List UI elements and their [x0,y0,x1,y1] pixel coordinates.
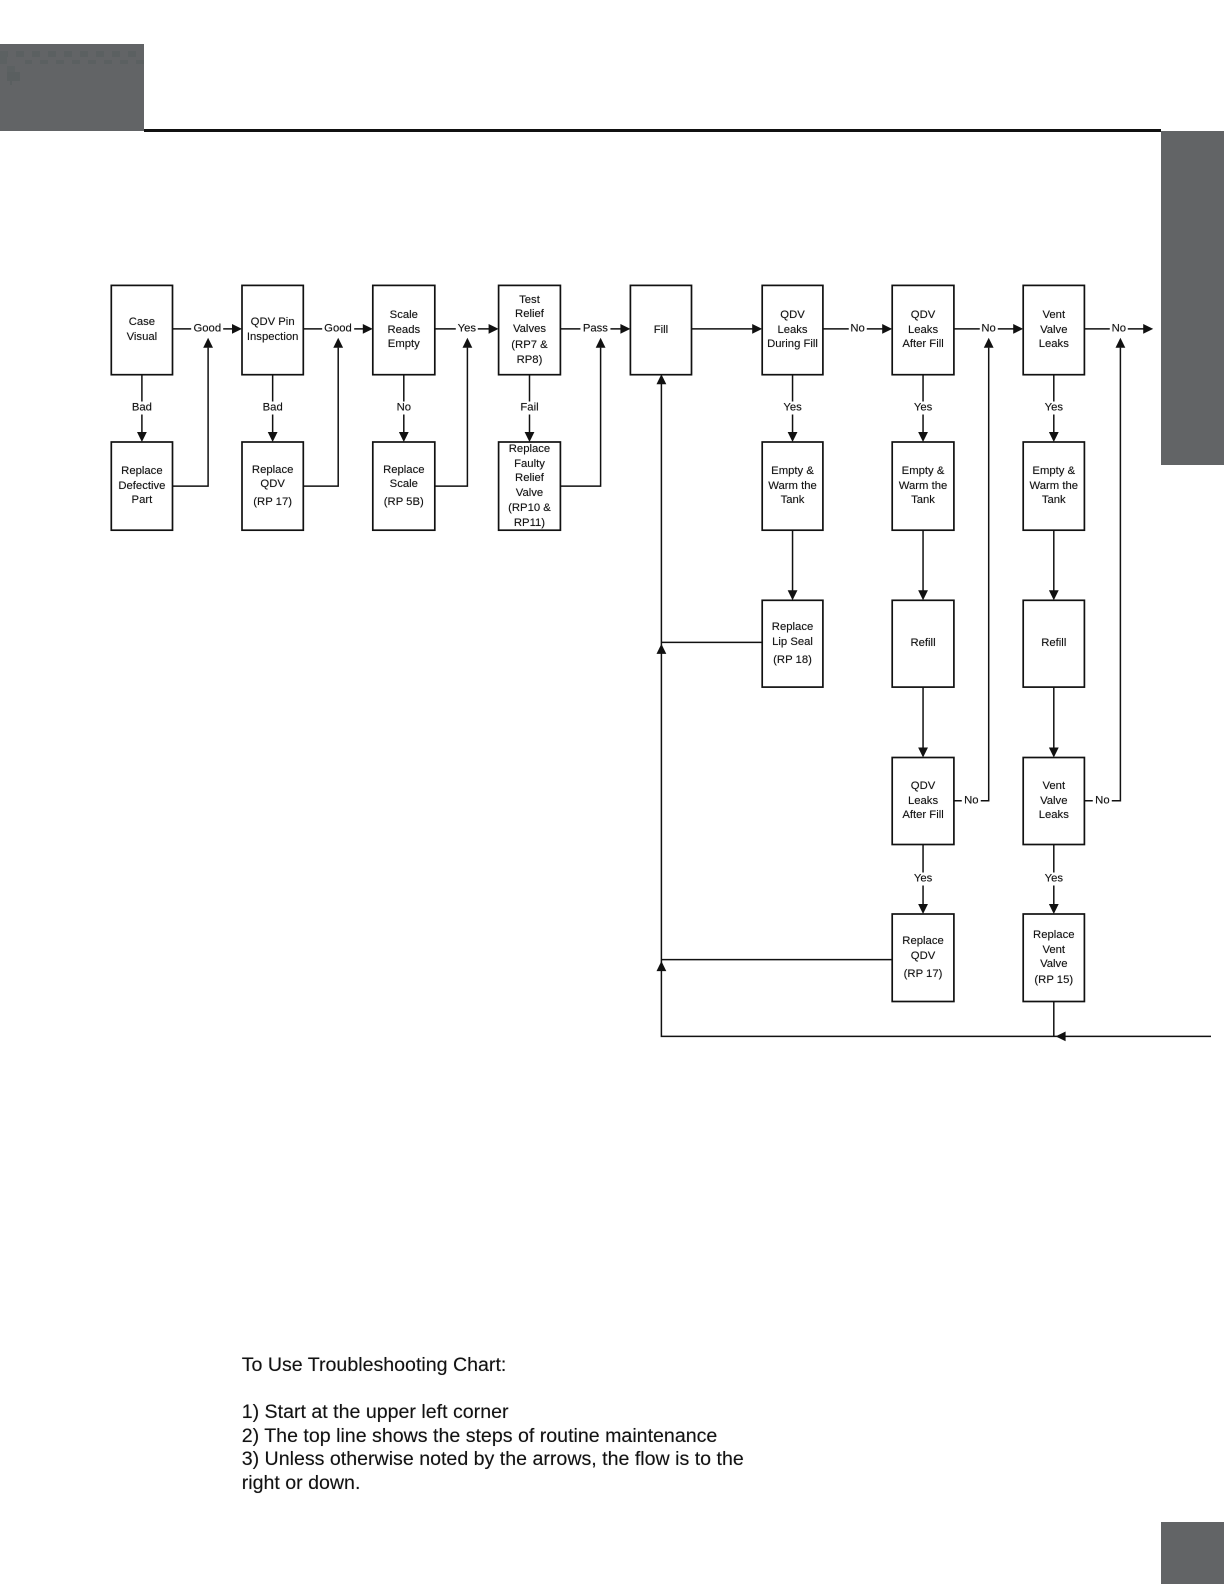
arrowhead: Replace Faulty Relief Valve feedback up [596,338,606,348]
wire: QDV Leaks After Fill lower No loop [954,348,989,801]
box outline: Fill [630,285,691,374]
wire: Vent Valve Leaks to page edge [1084,328,1144,330]
box outline: Replace QDV (RP 17) lower [892,914,954,1002]
box outline: QDV Leaks After Fill (top) [892,285,954,374]
arrowhead: into page edge [1143,324,1153,334]
wire: Case Visual to QDV Pin Inspection [173,328,234,330]
wire: Test Relief Valves to Fill [560,328,621,330]
label Pass [581,322,610,335]
label Yes (col6) [781,401,803,414]
box text: QDV Leaks After Fill top text [892,285,954,374]
bottom-right redaction block [1161,1522,1224,1584]
label Good (1) [191,322,223,335]
box outline: QDV Leaks After Fill (lower) [892,758,954,845]
wire: Replace Defective Part feedback [173,348,209,487]
box outline: Replace QDV (RP 17) [242,442,303,530]
header redaction block [0,44,144,131]
box outline: Empty & Warm the Tank (col8) [1023,442,1084,530]
label Good (2) [322,322,354,335]
label Bad (col1) [130,401,154,414]
box text: Empty Warm Tank c6 text [762,442,823,530]
arrowhead: into row2 at c3 [399,432,409,442]
box outline: Replace Vent Valve (RP 15) [1023,914,1084,1002]
wire: QDV Leaks During Fill to QDV Leaks After Fill [823,328,883,330]
box text: QDV Leaks After Fill lower text [892,758,954,845]
arrowhead: into Test Relief Valves [489,324,499,334]
label Yes (col8 lower) [1043,872,1065,885]
arrowhead: into row4 at c7 [918,748,928,758]
wire: row4 c8 down (Yes) [1053,845,1055,906]
wire: QDV Pin Inspection down (Bad) [272,375,274,433]
arrowhead: into QDV Pin Inspection [232,324,242,334]
arrowhead: into Vent Valve Leaks [1013,324,1023,334]
box outline: Replace Scale (RP 5B) [373,442,435,530]
arrowhead: into Fill [620,324,630,334]
box text: Vent Valve Leaks lower text [1023,758,1084,845]
label Yes (col8) [1043,401,1065,414]
wire: Replace Vent Valve down to return [1053,1002,1055,1037]
box text: Replace Lip Seal text [762,600,823,687]
arrowhead: into row5 at c7 [918,904,928,914]
wire: Replace QDV lower feedback [661,959,892,961]
wire: Scale Reads Empty down (No) [403,375,405,433]
arrowhead: into Scale Reads Empty [363,324,373,334]
label Fail (col4) [518,401,540,414]
box outline: Empty & Warm the Tank (col6) [762,442,823,530]
wire: Empty & Warm the Tank c7 down [922,530,924,591]
instructions text [242,1354,744,1495]
wire: Refill c7 down [922,687,924,748]
box outline: Replace Defective Part [111,442,172,530]
box outline: Vent Valve Leaks (lower) [1023,758,1084,845]
label Yes (col7) [912,401,934,414]
arrowhead: into row2 at c8 [1049,432,1059,442]
wire: Vent Valve Leaks lower No loop [1084,348,1120,801]
box outline: Replace Faulty Relief Valve (RP10 & RP11) [499,442,561,530]
wire: Fill to QDV Leaks During Fill [692,328,754,330]
arrowhead: into row2 at c7 [918,432,928,442]
box text: Scale Reads Empty text [373,285,435,374]
wire: Scale Reads Empty to Test Relief Valves [435,328,490,330]
wire: Case Visual down (Bad) [141,375,143,433]
wire: QDV Leaks After Fill down (Yes) [922,375,924,433]
box outline: Vent Valve Leaks (top) [1023,285,1084,374]
label Yes (top) [456,322,478,335]
box outline: Case Visual [111,285,172,374]
wire: Empty & Warm the Tank c6 down [792,530,794,591]
box outline: Refill (col7) [892,600,954,687]
right margin redaction block [1161,131,1224,466]
box text: Empty Warm Tank c7 text [892,442,954,530]
box outline: Empty & Warm the Tank (col7) [892,442,954,530]
box text: QDV Pin Inspection text [242,285,303,374]
box outline: QDV Pin Inspection [242,285,303,374]
box text: Replace Vent Valve text [1023,914,1084,1002]
box text: QDV Leaks During Fill text [762,285,823,374]
wire: QDV Leaks During Fill down (Yes) [792,375,794,433]
arrowhead: into row5 at c8 [1049,904,1059,914]
box outline: Replace Lip Seal (RP 18) [762,600,823,687]
label No (col3) [395,401,413,414]
box outline: Scale Reads Empty [373,285,435,374]
arrowhead: Replace QDV feedback up [333,338,343,348]
wire: QDV Pin Inspection to Scale Reads Empty [303,328,364,330]
label Yes (col7 lower) [912,872,934,885]
box text: Fill text [630,285,691,374]
arrowhead: into row3 at c7 [918,590,928,600]
arrowhead: into row2 at c1 [137,432,147,442]
arrowhead: into QDV Leaks After Fill [882,324,892,334]
box outline: Test Relief Valves (RP7 & RP8) [499,285,561,374]
wire: QDV Leaks After Fill to Vent Valve Leaks [954,328,1014,330]
arrowhead: Replace Scale feedback up [463,338,473,348]
arrowhead: at Lip Seal junction [657,644,667,654]
arrowhead: into row3 at c8 [1049,590,1059,600]
arrowhead: No loop c8 up [1116,338,1126,348]
label No (top 3) [1110,322,1128,335]
arrowhead: into row4 at c8 [1049,748,1059,758]
wire: Empty & Warm the Tank c8 down [1053,530,1055,591]
wire: Refill c8 down [1053,687,1055,748]
arrowhead: No loop c7 up [984,338,994,348]
wire: row4 c7 down (Yes) [922,845,924,906]
arrowhead: into row2 at c6 [788,432,798,442]
wire: Replace Scale feedback [435,348,468,487]
box text: Refill c8 text [1023,600,1084,687]
box outline: Refill (col8) [1023,600,1084,687]
wire: Replace QDV feedback [303,348,338,487]
arrowhead: leftward on bottom return [1056,1032,1066,1042]
label No (top 2) [979,322,997,335]
arrowhead: at Replace QDV junction [657,961,667,971]
box text: Refill c7 text [892,600,954,687]
wire: bottom return line to Fill [661,384,1211,1036]
arrowhead: into row2 at c2 [268,432,278,442]
box text: Replace QDV text [242,442,303,530]
header rule [144,129,1162,132]
label No (top 1) [848,322,866,335]
box text: Replace Defective Part text [111,442,172,530]
box text: Replace Faulty Relief Valve text [499,442,561,530]
wire: Vent Valve Leaks down (Yes) [1053,375,1055,433]
label No (col8 lower) [1093,794,1111,807]
box text: Empty Warm Tank c8 text [1023,442,1084,530]
box text: Case Visual text [111,285,172,374]
box text: Replace Scale text [373,442,435,530]
label Bad (col2) [261,401,285,414]
box text: Vent Valve Leaks top text [1023,285,1084,374]
wire: Test Relief Valves down (Fail) [529,375,531,433]
arrowhead: into QDV Leaks During Fill [752,324,762,334]
box text: Test Relief Valves text [499,285,561,374]
arrowhead: Replace Defective Part feedback up [203,338,213,348]
wire: Replace Lip Seal feedback [661,641,762,643]
redacted header text marks [0,0,1224,1]
box text: Replace QDV lower text [892,914,954,1002]
arrowhead: into row2 at c4 [525,432,535,442]
box outline: QDV Leaks During Fill [762,285,823,374]
arrowhead: into row3 at c6 [788,590,798,600]
label No (col7 lower) [962,794,980,807]
arrowhead: into Fill bottom [657,374,667,384]
wire: Replace Faulty Relief Valve feedback [560,348,600,487]
